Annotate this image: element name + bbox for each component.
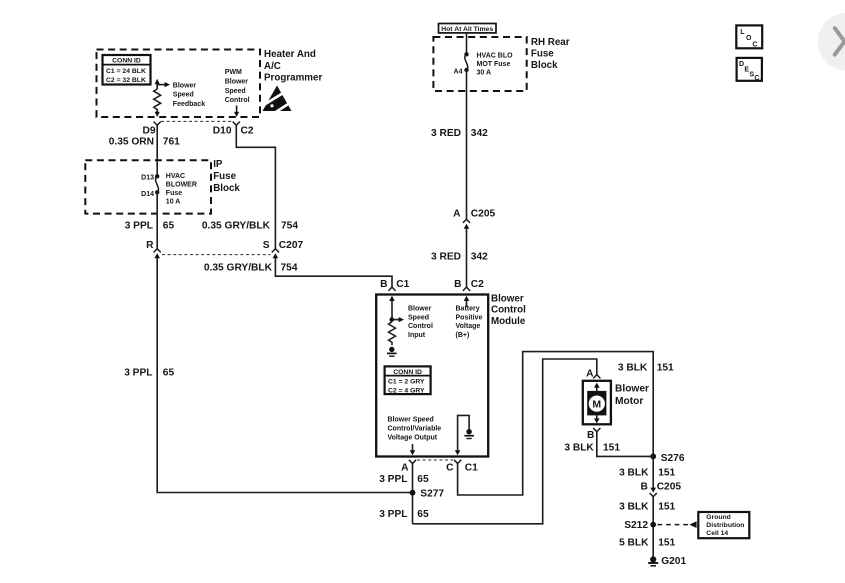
label B C2	[454, 279, 484, 290]
svg-text:Heater And: Heater And	[264, 49, 316, 60]
svg-text:342: 342	[471, 128, 488, 139]
label HVAC BLOWER Fuse 10 A	[166, 173, 197, 206]
svg-text:S277: S277	[420, 488, 444, 499]
label B C205	[640, 482, 681, 493]
wire C205 to G201	[652, 497, 654, 558]
connector R (C207)	[154, 249, 161, 262]
label 3 PPL 65 (below S277)	[379, 509, 429, 520]
motor M symbol	[587, 383, 606, 424]
svg-text:Voltage: Voltage	[456, 323, 481, 330]
svg-text:MOT Fuse: MOT Fuse	[477, 61, 511, 68]
svg-text:Block: Block	[213, 183, 240, 194]
svg-text:HVAC BLO: HVAC BLO	[477, 53, 514, 60]
internal pin arrow B C2	[464, 296, 470, 307]
svg-text:342: 342	[471, 252, 488, 263]
Ground Distribution Cell 14 box	[698, 512, 749, 538]
svg-text:761: 761	[163, 136, 180, 147]
wire module C to S276 (ground sense)	[458, 352, 654, 495]
svg-text:Blower: Blower	[173, 83, 197, 90]
connector C C1 (below module)	[454, 460, 461, 464]
label RH Rear Fuse Block	[531, 37, 570, 71]
fuse HVAC BLOWER 10A	[155, 174, 159, 194]
svg-text:C1: C1	[396, 279, 409, 290]
ESD symbol	[263, 86, 295, 114]
connector B (motor)	[593, 428, 600, 432]
svg-text:IP: IP	[213, 159, 223, 170]
wire fuse A4 down to connector A C205	[466, 70, 468, 219]
svg-text:C1 = 2 GRY: C1 = 2 GRY	[388, 379, 425, 386]
label S C207	[263, 240, 304, 251]
connector D10 (female chevron)	[233, 122, 240, 126]
connector A (below module)	[409, 460, 416, 464]
svg-text:151: 151	[603, 443, 620, 454]
splice S277	[410, 488, 445, 499]
svg-text:S276: S276	[661, 453, 685, 464]
svg-text:C2: C2	[241, 126, 254, 137]
svg-text:Cell 14: Cell 14	[706, 530, 728, 537]
label Blower Motor	[615, 383, 649, 407]
svg-text:A: A	[586, 368, 594, 379]
svg-text:151: 151	[658, 537, 675, 548]
label 0.35 GRY/BLK 754 (upper)	[202, 221, 298, 232]
label Blower Control Module	[491, 294, 526, 327]
svg-text:C2: C2	[471, 279, 484, 290]
connector S (C207)	[272, 249, 279, 262]
svg-text:0.35 GRY/BLK: 0.35 GRY/BLK	[204, 263, 273, 274]
svg-text:C205: C205	[657, 482, 682, 493]
label B C1	[380, 279, 410, 290]
svg-text:30 A: 30 A	[477, 70, 492, 77]
svg-text:0.35 GRY/BLK: 0.35 GRY/BLK	[202, 221, 271, 232]
svg-text:Control: Control	[491, 305, 526, 316]
connector dashed line A-C	[417, 459, 453, 461]
svg-text:65: 65	[163, 221, 175, 232]
svg-text:151: 151	[658, 501, 675, 512]
label 3 BLK 151 (below C205)	[619, 501, 675, 512]
svg-text:3 BLK: 3 BLK	[564, 443, 594, 454]
svg-text:HVAC: HVAC	[166, 173, 185, 180]
internal ground (below resistor)	[387, 347, 397, 357]
wire C205 to B C2 of module	[466, 231, 468, 287]
label 3 RED 342 (lower)	[431, 252, 488, 263]
svg-text:M: M	[592, 399, 601, 411]
svg-text:D: D	[739, 61, 744, 68]
svg-text:3 RED: 3 RED	[431, 128, 461, 139]
svg-text:C2 = 32 BLK: C2 = 32 BLK	[106, 77, 146, 84]
splice S212	[624, 520, 656, 531]
label 3 BLK 151 (motor B)	[564, 443, 620, 454]
svg-text:R: R	[146, 240, 154, 251]
svg-text:Voltage Output: Voltage Output	[388, 435, 438, 442]
svg-text:Fuse: Fuse	[213, 171, 236, 182]
svg-text:CONN ID: CONN ID	[393, 369, 422, 376]
svg-text:3 BLK: 3 BLK	[619, 467, 649, 478]
wire hot tag to fuse	[466, 33, 468, 54]
label Blower Speed Feedback	[173, 83, 205, 108]
wire S277 bottom run to motor A	[413, 359, 597, 524]
svg-text:A/C: A/C	[264, 61, 281, 72]
svg-text:Control/Variable: Control/Variable	[388, 426, 442, 433]
CONN ID table (programmer)	[103, 55, 151, 85]
next-page button (gray circle with chevron)	[818, 13, 845, 71]
label Battery Positive Voltage (B+)	[456, 306, 483, 339]
wire D14 to R	[156, 192, 158, 248]
svg-text:Blower: Blower	[615, 383, 649, 394]
svg-text:B: B	[380, 279, 387, 290]
CONN ID table (module)	[385, 366, 431, 394]
label 0.35 GRY/BLK 754 (lower)	[204, 263, 298, 274]
svg-text:G201: G201	[661, 556, 686, 567]
svg-text:65: 65	[417, 509, 429, 520]
connector D9 (female chevron)	[154, 122, 161, 126]
svg-text:C205: C205	[471, 209, 496, 220]
svg-text:CONN ID: CONN ID	[112, 58, 141, 65]
label IP Fuse Block	[213, 159, 240, 194]
svg-text:Blower: Blower	[491, 294, 524, 305]
label Blower Speed Control Input	[408, 306, 433, 339]
svg-text:Blower Speed: Blower Speed	[388, 417, 434, 424]
wire S to B C1 of module	[275, 261, 392, 287]
svg-text:5 BLK: 5 BLK	[619, 537, 649, 548]
Blower Control Module box	[376, 295, 488, 457]
svg-text:Feedback: Feedback	[173, 101, 205, 108]
wire D9 to fuse D13	[156, 125, 158, 176]
svg-text:3 PPL: 3 PPL	[125, 221, 153, 232]
wire R down-left long run to S277	[157, 261, 412, 493]
fuse HVAC BLO MOT 30A	[464, 52, 468, 72]
label Heater And A/C Programmer	[264, 49, 322, 84]
svg-text:D9: D9	[142, 126, 155, 137]
internal resistor + arrow (blower speed control input)	[389, 317, 405, 345]
connector dashed line C207	[162, 254, 271, 256]
svg-text:Control: Control	[225, 97, 250, 104]
svg-text:D14: D14	[141, 191, 154, 198]
svg-text:Ground: Ground	[706, 514, 731, 521]
label 3 PPL 65 (at A)	[379, 474, 429, 485]
svg-text:C2 = 4 GRY: C2 = 4 GRY	[388, 387, 425, 394]
svg-text:Input: Input	[408, 332, 426, 339]
internal ground hook at C	[455, 415, 474, 455]
svg-text:Hot At All Times: Hot At All Times	[441, 26, 493, 33]
label HVAC BLO MOT Fuse 30 A	[477, 53, 514, 77]
svg-text:BLOWER: BLOWER	[166, 182, 197, 189]
svg-text:151: 151	[657, 362, 674, 373]
svg-text:754: 754	[281, 263, 298, 274]
svg-text:Distribution: Distribution	[706, 522, 744, 529]
label 3 PPL 65	[125, 221, 175, 232]
svg-text:Blower: Blower	[225, 79, 249, 86]
label 0.35 ORN 761	[109, 136, 180, 147]
wire S276 to C205	[652, 456, 654, 488]
svg-text:L: L	[740, 29, 745, 36]
svg-text:C: C	[752, 41, 757, 48]
svg-text:D13: D13	[141, 174, 154, 181]
connector B C2 (female chevron at module)	[463, 287, 470, 291]
svg-text:754: 754	[281, 221, 298, 232]
svg-text:151: 151	[658, 467, 675, 478]
resistor (blower speed feedback)	[154, 79, 170, 117]
label 3 BLK 151 (above C205)	[619, 467, 675, 478]
ground G201	[648, 556, 686, 567]
svg-text:O: O	[746, 35, 752, 42]
svg-text:Speed: Speed	[408, 314, 429, 321]
connector B C1 (female chevron at module)	[388, 287, 395, 291]
splice S276	[650, 453, 685, 464]
svg-text:Fuse: Fuse	[531, 49, 554, 60]
Heater And A/C Programmer box	[97, 50, 261, 118]
label 3 PPL 65 (left long wire)	[124, 368, 174, 379]
svg-text:A: A	[401, 462, 409, 473]
label PWM Blower Speed Control	[225, 69, 250, 104]
wire motor B to S276	[597, 432, 653, 457]
label A C205	[453, 209, 495, 220]
label 3 BLK 151 (right vertical top)	[618, 362, 674, 373]
svg-text:Block: Block	[531, 60, 558, 71]
connector dashed line D9-D10	[161, 120, 233, 122]
internal output arrow A	[410, 444, 416, 455]
label D10 C2	[213, 126, 254, 137]
svg-text:Programmer: Programmer	[264, 73, 322, 84]
IP Fuse Block box	[85, 160, 211, 213]
svg-text:65: 65	[417, 474, 429, 485]
svg-text:B: B	[587, 430, 594, 441]
PWM output arrow	[234, 106, 239, 118]
svg-text:Battery: Battery	[456, 306, 480, 313]
label 3 RED 342 (upper)	[431, 128, 488, 139]
connector A C205	[463, 219, 470, 232]
svg-text:Speed: Speed	[225, 88, 246, 95]
Blower Motor box	[583, 381, 611, 425]
label 5 BLK 151	[619, 537, 675, 548]
svg-text:S212: S212	[624, 520, 648, 531]
svg-text:0.35 ORN: 0.35 ORN	[109, 136, 154, 147]
svg-text:S: S	[263, 240, 270, 251]
svg-text:B: B	[454, 279, 461, 290]
svg-text:65: 65	[163, 368, 175, 379]
svg-text:3 PPL: 3 PPL	[124, 368, 152, 379]
svg-text:3 RED: 3 RED	[431, 252, 461, 263]
svg-text:A4: A4	[454, 68, 463, 75]
DESC tag box	[737, 58, 762, 82]
wire D10/C2 to S connector	[236, 125, 275, 248]
svg-text:3 PPL: 3 PPL	[379, 474, 407, 485]
svg-text:3 BLK: 3 BLK	[618, 362, 648, 373]
label Blower Speed Control/Variable Voltage Output	[388, 417, 442, 442]
svg-text:Fuse: Fuse	[166, 190, 182, 197]
svg-text:10 A: 10 A	[166, 199, 181, 206]
svg-text:3 PPL: 3 PPL	[379, 509, 407, 520]
svg-text:C207: C207	[279, 240, 304, 251]
svg-text:C1: C1	[465, 463, 478, 474]
dashed reference arrow to ground distribution	[658, 521, 697, 528]
svg-text:Control: Control	[408, 323, 433, 330]
svg-text:C: C	[754, 75, 759, 82]
wire module A to S277 and on down	[412, 464, 414, 524]
label C C1	[446, 463, 478, 474]
svg-text:Motor: Motor	[615, 396, 643, 407]
connector A (motor)	[593, 375, 600, 379]
svg-text:RH Rear: RH Rear	[531, 37, 570, 48]
connector B C205 (male above, female below)	[650, 488, 657, 497]
svg-text:A: A	[453, 209, 461, 220]
svg-text:C1 = 24 BLK: C1 = 24 BLK	[106, 68, 146, 75]
LOC tag box	[736, 25, 762, 48]
svg-text:(B+): (B+)	[456, 332, 470, 339]
svg-text:Blower: Blower	[408, 306, 432, 313]
svg-text:Module: Module	[491, 316, 526, 327]
svg-text:PWM: PWM	[225, 69, 242, 76]
internal pin arrow B C1	[389, 296, 395, 320]
svg-text:C: C	[446, 463, 454, 474]
svg-text:Positive: Positive	[456, 314, 483, 321]
Hot At All Times tag	[439, 24, 497, 33]
RH Rear Fuse Block box	[433, 37, 526, 91]
svg-text:3 BLK: 3 BLK	[619, 501, 649, 512]
svg-text:Speed: Speed	[173, 92, 194, 99]
svg-text:D10: D10	[213, 126, 232, 137]
svg-text:B: B	[640, 482, 647, 493]
